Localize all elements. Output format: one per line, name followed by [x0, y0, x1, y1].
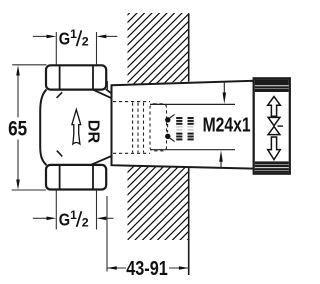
svg-text:DR: DR: [84, 120, 101, 144]
svg-text:1: 1: [70, 208, 77, 222]
svg-text:2: 2: [82, 35, 89, 49]
svg-text:G: G: [59, 210, 70, 230]
svg-text:65: 65: [8, 117, 27, 141]
svg-text:M24x1: M24x1: [203, 114, 251, 136]
svg-text:1: 1: [70, 27, 77, 41]
svg-text:G: G: [59, 29, 70, 49]
svg-text:2: 2: [82, 215, 89, 229]
svg-text:43-91: 43-91: [126, 258, 168, 280]
